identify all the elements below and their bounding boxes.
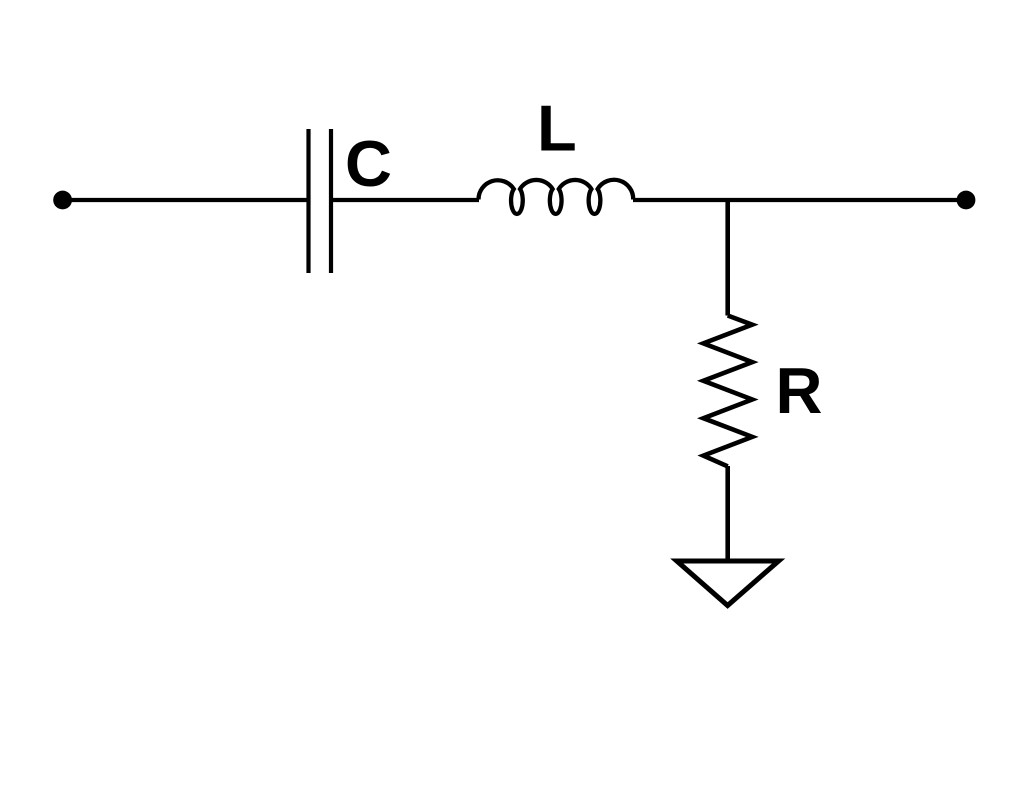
wire node A down to resistor: [725, 198, 730, 316]
wire inductor to node A and OUT: [633, 198, 966, 202]
wire resistor to ground: [725, 466, 730, 560]
resistor R (zigzag): [703, 316, 752, 467]
node IN (left terminal dot): [53, 191, 72, 210]
ground: [677, 561, 779, 606]
inductor L (coil): [478, 180, 633, 214]
capacitor C (plates): [309, 129, 332, 273]
node OUT (right terminal dot): [957, 191, 976, 210]
wire IN to capacitor: [63, 198, 309, 202]
svg-text:L: L: [537, 92, 577, 165]
wire capacitor to inductor: [331, 198, 479, 202]
svg-text:R: R: [776, 354, 823, 427]
svg-text:C: C: [345, 127, 392, 200]
